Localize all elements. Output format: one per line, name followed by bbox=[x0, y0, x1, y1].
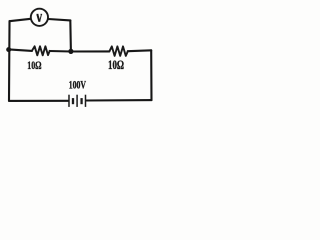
svg-text:10Ω: 10Ω bbox=[27, 60, 41, 72]
svg-text:100V: 100V bbox=[69, 79, 86, 91]
battery B1 plate short 1 bbox=[72, 98, 74, 104]
wire bottom right bbox=[86, 99, 151, 102]
wire middle center bbox=[50, 50, 110, 53]
node junction dot left bbox=[6, 47, 11, 52]
wire loop-right vertical bbox=[69, 20, 72, 51]
battery B1 plate long 2 bbox=[76, 95, 78, 107]
resistor R1 zigzag bbox=[32, 46, 50, 55]
resistor R2 zigzag bbox=[109, 46, 127, 56]
battery B1 plate short 2 bbox=[80, 98, 82, 104]
svg-text:10Ω: 10Ω bbox=[108, 58, 124, 72]
node junction dot right bbox=[68, 49, 73, 54]
battery B1 plate long 3 bbox=[84, 95, 86, 107]
wire far-right vertical bbox=[150, 50, 152, 100]
wire bottom left bbox=[9, 100, 68, 102]
wire middle left bbox=[9, 49, 32, 51]
battery B1 plate long 1 bbox=[68, 95, 70, 107]
voltmeter V1 label V bbox=[37, 14, 43, 21]
wire top-right segment bbox=[48, 19, 70, 20]
wire top-left segment bbox=[10, 19, 31, 21]
voltmeter V1 circle bbox=[31, 9, 48, 26]
wire middle right bbox=[128, 49, 151, 52]
wire left vertical bbox=[8, 21, 11, 101]
